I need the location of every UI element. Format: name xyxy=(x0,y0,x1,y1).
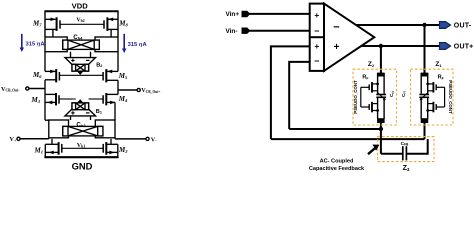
wire right bus top xyxy=(117,11,119,37)
pseudo-resistor FET Q1 xyxy=(361,82,379,93)
svg-text:+: + xyxy=(334,42,340,53)
op-amp B1 xyxy=(59,99,102,116)
op-amp U1 triangle xyxy=(324,4,374,71)
svg-text:OUT-: OUT- xyxy=(454,23,472,30)
terminal V+ xyxy=(10,136,49,143)
capacitor body Z2 xyxy=(377,73,385,119)
wire feedback line to Z2 xyxy=(289,128,381,130)
wire V+ step to M1 xyxy=(51,139,53,145)
junction bar Z2 bottom xyxy=(377,118,385,123)
wire right bus mid xyxy=(117,52,119,72)
wire feedback input 3 xyxy=(271,46,310,139)
svg-text:Vin-: Vin- xyxy=(226,28,238,35)
transistor M2 xyxy=(103,142,128,155)
wire feedback bus to Z1 xyxy=(271,138,425,140)
svg-text:V-: V- xyxy=(151,136,157,143)
svg-text:315 ηA: 315 ηA xyxy=(128,42,148,48)
svg-text:Z2: Z2 xyxy=(368,61,375,68)
node dot OUT+ / Z2 xyxy=(379,44,383,48)
transistor M3 xyxy=(31,93,73,105)
svg-text:Z1: Z1 xyxy=(435,61,442,68)
wire M2 source to GND xyxy=(117,144,119,157)
svg-text:+: + xyxy=(314,10,319,20)
transistor M4 xyxy=(89,93,128,105)
wire gate line row2 xyxy=(59,74,103,76)
terminal OUT+ xyxy=(440,43,474,51)
svg-text:GND: GND xyxy=(72,161,93,172)
wire V- step to M2 xyxy=(110,139,112,144)
transistor M1 xyxy=(34,142,62,155)
annotation arrow xyxy=(368,145,379,155)
junction bar Z1 bottom xyxy=(421,118,429,123)
svg-text:RF: RF xyxy=(438,75,444,81)
wire OUT- line xyxy=(356,24,441,26)
node dot feedback/Z2 xyxy=(379,127,383,131)
svg-text:AC- Coupled: AC- Coupled xyxy=(320,159,354,165)
svg-text:PSEUDO_CONT: PSEUDO_CONT xyxy=(448,80,453,114)
wire left bus top xyxy=(44,11,46,37)
wire Z1 main vertical xyxy=(424,25,426,74)
chopper Ch3 right bracket xyxy=(95,120,115,138)
capacitor CFI plates right xyxy=(419,92,429,100)
transistor M6 xyxy=(32,69,59,82)
svg-text:V+: V+ xyxy=(10,136,17,143)
chopper Ch4 left bracket xyxy=(45,37,67,52)
node dot OUT- / Z1 xyxy=(422,23,426,27)
wire Vb1 gate line xyxy=(62,147,103,149)
svg-text:CFI: CFI xyxy=(389,91,395,97)
wire M1 source to GND xyxy=(44,144,46,157)
current arrow 315nA left xyxy=(20,34,46,52)
wire OUT+ line xyxy=(361,45,440,47)
capacitor body Z1 xyxy=(421,73,429,119)
wire Vin+ to amp xyxy=(249,13,310,15)
op-amp U1 input box xyxy=(310,4,324,71)
wire feedback input 4 xyxy=(289,62,310,129)
capacitor CFB loop xyxy=(381,139,428,160)
svg-text:OUT+: OUT+ xyxy=(454,44,474,51)
svg-text:Vb2: Vb2 xyxy=(76,17,84,23)
wire B2 stubs xyxy=(70,52,72,58)
terminal VCB_Out+ xyxy=(118,87,160,94)
svg-text:B2: B2 xyxy=(96,62,102,68)
terminal VCB_Out- xyxy=(1,86,45,93)
svg-text:Capacitive Feedback: Capacitive Feedback xyxy=(309,166,365,172)
chopper Ch3 left bracket xyxy=(49,120,69,138)
svg-text:VDD: VDD xyxy=(72,2,89,11)
svg-text:PSEUDO_CONT: PSEUDO_CONT xyxy=(353,80,358,114)
chopper Ch4 cross box xyxy=(63,40,100,49)
wire Vb2 gate line xyxy=(60,23,104,25)
svg-text:−: − xyxy=(333,22,339,34)
svg-text:Vb1: Vb1 xyxy=(77,143,85,149)
Z2 interior xyxy=(353,75,395,123)
current arrow 315nA right xyxy=(122,34,147,53)
pseudo-resistor FET Q4 xyxy=(426,102,444,113)
terminal Vin- xyxy=(226,28,251,36)
impedance Z3 dashed box xyxy=(378,137,434,162)
VDD rail xyxy=(44,10,118,12)
svg-text:−: − xyxy=(314,26,319,36)
chopper Ch3 cross box xyxy=(63,126,103,135)
GND rail xyxy=(44,156,118,158)
chopper Ch4 right bracket xyxy=(95,37,118,52)
svg-text:−: − xyxy=(314,56,319,66)
transistor M7 xyxy=(32,17,60,37)
wire B1 stubs xyxy=(70,116,72,120)
svg-text:CFI: CFI xyxy=(401,91,407,97)
op-amp B2 xyxy=(65,58,102,75)
svg-text:RF: RF xyxy=(362,75,368,81)
wire Vin- to amp xyxy=(249,30,310,32)
svg-text:B1: B1 xyxy=(96,109,102,115)
terminal Vin+ xyxy=(226,11,251,18)
wire M3 drain to Ch3 xyxy=(45,119,49,121)
svg-text:Z3: Z3 xyxy=(403,165,410,172)
pseudo-resistor FET Q2 xyxy=(361,102,379,113)
impedance Z2 dashed box xyxy=(353,69,397,125)
terminal V- xyxy=(115,136,157,143)
transistor M5 xyxy=(103,69,128,82)
wire left bus mid xyxy=(44,52,46,72)
impedance Z1 dashed box xyxy=(411,69,454,125)
wire gate rail right xyxy=(444,87,446,107)
capacitor CFI plates xyxy=(376,92,386,100)
svg-text:Vin+: Vin+ xyxy=(226,11,240,18)
svg-text:CFB: CFB xyxy=(401,141,409,147)
wire gate rail xyxy=(360,87,362,107)
wire M4 drain to Ch3/V- xyxy=(114,102,116,120)
svg-text:+: + xyxy=(314,41,319,51)
terminal OUT- xyxy=(440,22,472,30)
transistor M8 xyxy=(104,17,129,37)
Z1 interior xyxy=(401,75,453,123)
pseudo-resistor FET Q3 xyxy=(426,82,444,93)
wire Z2 main vertical xyxy=(380,46,382,74)
svg-text:315 ηA: 315 ηA xyxy=(26,41,46,47)
